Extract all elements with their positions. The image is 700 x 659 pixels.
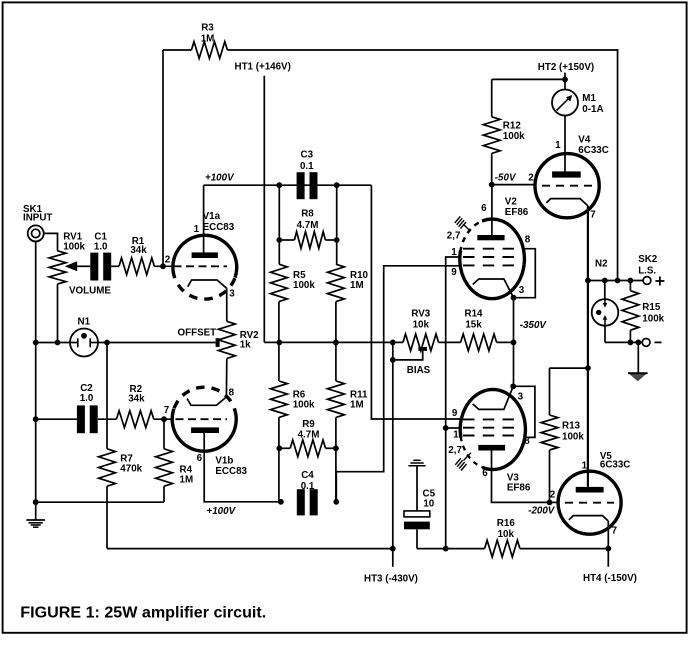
svg-text:8: 8 [525, 235, 531, 246]
svg-text:0.1: 0.1 [300, 161, 314, 172]
svg-text:C3: C3 [301, 150, 314, 161]
resistor R10 [328, 264, 345, 301]
junction [276, 237, 282, 243]
wire A [371, 185, 460, 419]
wire [36, 501, 164, 503]
wire [446, 427, 461, 429]
svg-text:8: 8 [229, 388, 235, 399]
svg-text:34k: 34k [128, 394, 145, 405]
resistor R2 [116, 411, 153, 428]
resistor R5 [271, 264, 288, 301]
svg-text:1: 1 [194, 224, 200, 235]
wire [154, 265, 173, 267]
wire [90, 342, 215, 344]
svg-text:0-1A: 0-1A [582, 104, 603, 115]
svg-text:1M: 1M [180, 474, 194, 485]
wire [497, 341, 514, 343]
wire [416, 529, 418, 548]
resistor R12 [491, 79, 493, 116]
svg-text:-350V: -350V [520, 320, 548, 331]
svg-text:INPUT: INPUT [23, 213, 52, 224]
wire [225, 359, 227, 399]
svg-text:R16: R16 [497, 518, 516, 529]
junction [276, 445, 282, 451]
ground [26, 519, 45, 521]
wire [550, 367, 588, 369]
svg-text:VOLUME: VOLUME [69, 286, 111, 297]
svg-text:ECC83: ECC83 [215, 466, 247, 477]
junction [33, 340, 39, 346]
wire [416, 466, 418, 511]
cathode V1a [188, 280, 227, 288]
svg-text:1M: 1M [350, 280, 364, 291]
wire [204, 184, 372, 186]
svg-text:-200V: -200V [528, 506, 556, 517]
svg-text:2,7: 2,7 [447, 231, 461, 242]
anode plate V4 [552, 171, 581, 177]
wire [278, 302, 280, 381]
wire [549, 450, 551, 502]
wire C [392, 342, 394, 548]
svg-text:N1: N1 [78, 316, 91, 327]
wire D [446, 257, 461, 549]
resistor R4 [163, 419, 165, 449]
wiper RV2 [216, 338, 220, 347]
svg-text:R12: R12 [503, 121, 522, 132]
grid V5 [565, 502, 614, 504]
svg-text:+100V: +100V [205, 172, 235, 183]
svg-text:+100V: +100V [207, 506, 237, 517]
junction [511, 340, 517, 346]
wire [279, 239, 294, 241]
svg-text:2: 2 [550, 489, 556, 500]
svg-text:1: 1 [451, 247, 457, 258]
wire [36, 418, 77, 420]
svg-text:470k: 470k [120, 464, 142, 475]
svg-text:EF86: EF86 [507, 483, 531, 494]
svg-text:100k: 100k [642, 313, 664, 324]
svg-text:100k: 100k [293, 280, 315, 291]
svg-text:2: 2 [165, 255, 171, 266]
capacitor C5 [404, 511, 430, 517]
svg-text:HT2 (+150V): HT2 (+150V) [538, 62, 594, 73]
junction [443, 546, 449, 552]
svg-text:R13: R13 [562, 421, 581, 432]
tube V1b envelope [172, 408, 236, 451]
resistor R6 [271, 381, 288, 417]
svg-text:1.0: 1.0 [80, 393, 94, 404]
junction [104, 340, 110, 346]
wire [417, 548, 485, 550]
svg-text:1M: 1M [350, 400, 364, 411]
wire [98, 418, 117, 420]
grid g2 V3 [463, 427, 514, 429]
wire [106, 486, 108, 548]
svg-text:8: 8 [524, 436, 530, 447]
wire [564, 116, 566, 172]
junction [278, 499, 284, 505]
wire [154, 418, 173, 420]
wire [617, 49, 619, 280]
svg-text:10k: 10k [413, 320, 430, 331]
wire [637, 342, 639, 373]
potentiometer RV1 [49, 251, 66, 284]
ground [628, 373, 648, 381]
resistor R3 [191, 42, 227, 59]
wire [279, 447, 290, 449]
svg-text:R9: R9 [302, 419, 315, 430]
grid g1 V2 [463, 264, 514, 266]
resistor R8 [294, 232, 325, 249]
svg-text:R10: R10 [350, 270, 369, 281]
wire [587, 206, 589, 487]
capacitor C1 [90, 253, 98, 281]
junction [33, 499, 39, 505]
grid g3 V2 [463, 248, 514, 250]
svg-text:V1a: V1a [203, 211, 221, 222]
potentiometer RV2 [218, 321, 235, 358]
svg-text:4.7M: 4.7M [297, 220, 319, 231]
cathode V1b [187, 397, 226, 405]
wire [513, 298, 515, 387]
svg-text:2: 2 [528, 172, 534, 183]
junction [390, 357, 396, 363]
node HT4 [607, 549, 609, 567]
svg-text:1M: 1M [201, 34, 215, 45]
wire [57, 284, 59, 343]
svg-text:6: 6 [482, 468, 488, 479]
cathode V3 [473, 386, 513, 409]
svg-text:2,7: 2,7 [448, 445, 462, 456]
svg-text:1: 1 [555, 140, 561, 151]
node 7 [161, 416, 167, 422]
wiper arrow RV3 [418, 347, 427, 351]
svg-text:15k: 15k [465, 320, 482, 331]
cathode V5 [569, 516, 608, 521]
node 2 [160, 263, 166, 269]
grid V4 [542, 185, 592, 187]
tube V1a envelope [173, 235, 237, 278]
wire [520, 548, 608, 550]
svg-text:0.1: 0.1 [301, 481, 315, 492]
svg-text:R14: R14 [465, 309, 484, 320]
wire [492, 78, 565, 80]
svg-text:3: 3 [229, 288, 235, 299]
wiper arrow RV1 [65, 261, 77, 271]
svg-text:7: 7 [164, 405, 170, 416]
grid V1b [176, 418, 228, 420]
svg-text:M1: M1 [582, 93, 596, 104]
wire [439, 341, 461, 343]
svg-text:7: 7 [590, 210, 596, 221]
wire [492, 184, 536, 186]
svg-text:1: 1 [582, 460, 588, 471]
ground [413, 459, 420, 461]
wire [107, 548, 393, 550]
svg-text:HT4 (-150V): HT4 (-150V) [583, 573, 637, 584]
junction [605, 546, 611, 552]
svg-text:10k: 10k [498, 529, 515, 540]
wire [336, 185, 338, 264]
svg-text:N2: N2 [595, 259, 608, 270]
capacitor C4 [297, 489, 305, 515]
svg-text:100k: 100k [562, 432, 584, 443]
svg-text:EF86: EF86 [505, 207, 529, 218]
resistor R15 [629, 281, 631, 291]
cathode V2 [473, 279, 514, 298]
wire [564, 79, 566, 89]
svg-text:-50V: -50V [495, 173, 517, 184]
meter M1 [552, 90, 578, 116]
tube V4 envelope [535, 154, 599, 218]
resistor R1 [119, 258, 154, 275]
svg-text:V1b: V1b [215, 456, 233, 467]
svg-text:34k: 34k [130, 245, 147, 256]
potentiometer RV3 [403, 334, 439, 351]
cathode V4 [546, 199, 588, 206]
wire [588, 280, 643, 282]
resistor R7 [99, 449, 116, 486]
svg-text:6C33C: 6C33C [600, 459, 631, 470]
wire B [336, 266, 460, 502]
connector SK2 - [642, 339, 650, 347]
svg-text:6: 6 [481, 203, 487, 214]
junction [390, 546, 396, 552]
svg-text:BIAS: BIAS [407, 365, 431, 376]
svg-text:FIGURE 1: 25W amplifier circui: FIGURE 1: 25W amplifier circuit. [20, 604, 266, 622]
svg-text:3: 3 [519, 285, 525, 296]
grid V1a [174, 265, 228, 267]
resistor R13 [541, 415, 558, 450]
svg-text:4.7M: 4.7M [298, 430, 320, 441]
wire [335, 417, 337, 501]
svg-text:ECC83: ECC83 [203, 222, 235, 233]
wire x513 lower [510, 383, 516, 389]
svg-text:6: 6 [197, 453, 203, 464]
wire [604, 326, 606, 343]
junction [443, 425, 449, 431]
grid g1 V3 [463, 435, 514, 437]
svg-text:7: 7 [612, 526, 618, 537]
node HT3 [392, 549, 394, 567]
svg-text:3: 3 [518, 391, 524, 402]
grid g3 V3 [463, 418, 514, 420]
wire [163, 49, 191, 51]
svg-text:9: 9 [451, 267, 457, 278]
svg-text:6C33C: 6C33C [578, 145, 609, 156]
wire [278, 185, 280, 264]
svg-text:R3: R3 [201, 23, 214, 34]
junction [276, 340, 282, 346]
svg-text:C4: C4 [301, 470, 314, 481]
svg-text:L.S.: L.S. [638, 266, 656, 277]
svg-text:V4: V4 [578, 135, 591, 146]
svg-text:100k: 100k [63, 241, 85, 252]
resistor R14 [461, 334, 497, 351]
wire [111, 265, 119, 267]
wire [335, 302, 337, 381]
svg-text:10: 10 [423, 499, 434, 510]
svg-text:100k: 100k [503, 131, 525, 142]
svg-text:OFFSET: OFFSET [178, 328, 217, 339]
junction [585, 278, 591, 284]
resistor R11 [328, 381, 345, 417]
resistor R9 [290, 440, 325, 457]
wire [162, 50, 164, 266]
wire [279, 341, 403, 343]
svg-text:1k: 1k [240, 339, 251, 350]
svg-text:100k: 100k [293, 400, 315, 411]
wire [35, 241, 37, 520]
capacitor C2 [77, 405, 85, 433]
svg-text:HT1 (+146V): HT1 (+146V) [235, 62, 291, 73]
tube V2 envelope [460, 219, 525, 299]
anode plate V1a [192, 252, 218, 258]
tube V5 envelope [558, 471, 621, 534]
junction [276, 182, 282, 188]
junction [628, 340, 634, 346]
svg-text:1.0: 1.0 [94, 241, 108, 252]
svg-text:SK2: SK2 [638, 254, 658, 265]
wire [44, 233, 58, 250]
grid g2 V2 [463, 256, 514, 258]
anode plate V5 [576, 487, 604, 493]
wire [278, 417, 280, 502]
junction [55, 340, 61, 346]
junction [547, 500, 553, 506]
anode plate V3 [478, 445, 505, 451]
resistor R16 [485, 540, 520, 557]
svg-text:9: 9 [452, 408, 458, 419]
svg-text:1: 1 [453, 430, 459, 441]
junction [33, 416, 39, 422]
wire [227, 49, 618, 51]
junction [602, 278, 608, 284]
tube V3 envelope [460, 390, 525, 470]
svg-text:RV3: RV3 [411, 309, 430, 320]
svg-text:HT3 (-430V): HT3 (-430V) [364, 573, 418, 584]
anode plate V1b [191, 427, 219, 433]
svg-text:R15: R15 [642, 302, 661, 313]
capacitor C3 [297, 172, 305, 199]
svg-text:R8: R8 [301, 209, 314, 220]
wire [106, 343, 108, 449]
node -50V [489, 182, 495, 188]
anode plate V2 [477, 235, 504, 240]
wire [36, 342, 78, 344]
